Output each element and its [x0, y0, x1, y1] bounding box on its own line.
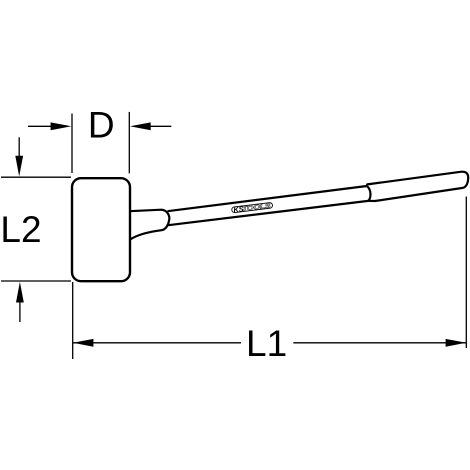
L1 dimension: right extension line: [465, 197, 467, 349]
shaft top line: [168, 186, 367, 211]
grip section: [367, 172, 469, 201]
L1 dimension line left segment with arrow: [73, 342, 241, 344]
shaft bottom line: [168, 201, 368, 225]
L2 dimension: top extension line: [1, 176, 71, 178]
L1 dimension line right segment with arrow: [293, 342, 466, 344]
L2 dimension: bottom arrow: [19, 302, 21, 322]
D dimension: left arrow: [28, 125, 52, 127]
hammer head: [72, 178, 130, 281]
D dimension: right arrow: [150, 125, 172, 127]
L2 dimension: top arrow: [18, 137, 20, 158]
collar / neck: [130, 210, 170, 240]
D dimension: right extension line: [128, 112, 130, 173]
L2 dimension: bottom extension line: [1, 280, 71, 282]
L1 dimension: left extension line: [72, 282, 74, 359]
D dimension: left extension line: [71, 114, 73, 174]
svg-text:L2: L2: [0, 209, 41, 250]
KS TOOLS logo on shaft: [231, 201, 273, 215]
svg-text:D: D: [88, 105, 115, 146]
svg-text:L1: L1: [246, 323, 287, 364]
